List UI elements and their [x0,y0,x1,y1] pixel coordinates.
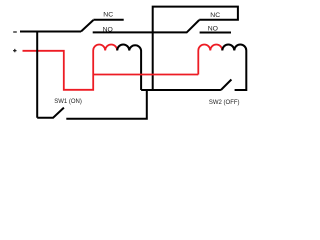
svg-text:SW1 (ON): SW1 (ON) [54,99,82,105]
coil K1 black half and right terminal down [117,45,141,91]
switch arm SW1 relay (closed to NC) [81,20,93,32]
switch SW1 manual (drawn open) left contact and arm [37,108,64,118]
switch SW2 manual (open) arm [221,80,232,91]
contact NC1 stub [93,19,123,21]
coil K2 (right relay coil, red half) with left terminal up from red bus [198,45,222,75]
svg-text:NO: NO [103,26,113,33]
coil K1 (left relay coil, red half) [93,45,117,51]
terminal + label [13,49,16,52]
wire red bus: coil K1 left terminal branch to coil K2 left terminal (drawn over black) [93,74,198,76]
terminal - label [13,31,17,33]
svg-text:SW2 (OFF): SW2 (OFF) [209,100,240,106]
node junction: vertical from - rail down to manual switch SW1 [36,32,38,118]
svg-text:NC: NC [103,12,113,19]
contact NO2 stub [200,32,231,34]
svg-text:NO: NO [208,26,218,33]
wire black bottom bus [141,89,221,91]
coil K2 black half and right terminal down [222,45,246,91]
wire + supply red: from + terminal right, down, bottom, up to coil K1 left terminal [23,51,94,90]
svg-text:NC: NC [210,12,220,19]
contact NO1 wire continuing to SW2 relay common and arm to NC2 [93,20,200,32]
wire - supply black: from - terminal to SW1 relay common [20,31,81,33]
wire drop from bottom bus to manual switch SW1 right contact [66,90,147,119]
contact NC2 line, up right side, top wire, tall vertical down to bottom bus [153,7,238,90]
